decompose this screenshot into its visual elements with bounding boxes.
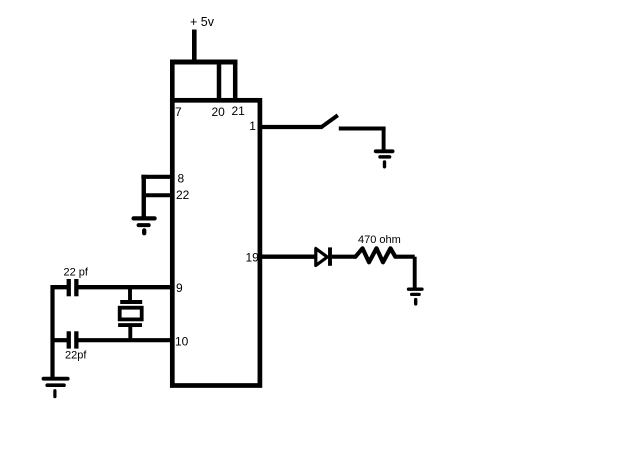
svg-text:8: 8 (178, 172, 185, 186)
ground G2 (134, 218, 155, 233)
capacitor C2 plates (69, 331, 77, 348)
svg-text:7: 7 (175, 105, 182, 119)
wire pin 10 right segment (78, 338, 173, 342)
svg-text:1: 1 (249, 119, 256, 133)
wire pin 9 right segment (78, 285, 173, 289)
wire pin 22 (143, 193, 173, 197)
wire bus drop to pin 21 (233, 60, 238, 100)
wire pin 8 (141, 175, 173, 179)
wire bus drop to pin 7 (170, 60, 175, 100)
wire switch to corner (339, 127, 386, 131)
svg-text:22pf: 22pf (65, 349, 87, 361)
svg-text:19: 19 (246, 251, 260, 265)
wire +5v vertical (192, 30, 197, 64)
IC U1 body (172, 100, 260, 385)
svg-text:20: 20 (212, 105, 226, 119)
wire corner down to ground G1 (382, 129, 386, 152)
resistor R1 zigzag (356, 248, 396, 262)
svg-text:9: 9 (176, 281, 183, 295)
wire pin 1 to switch (260, 125, 323, 129)
ground G3 (409, 289, 423, 304)
ground G1 (376, 151, 393, 167)
crystal Y1 top plate (120, 300, 142, 304)
wire +5v bus horizontal (170, 60, 237, 65)
diode D1 cathode bar (328, 247, 332, 265)
wire pin8/22 vertical to ground G2 (142, 175, 146, 217)
switch S1 blade (321, 115, 338, 127)
wire bus drop to pin 20 (217, 60, 222, 100)
crystal Y1 body (120, 308, 142, 320)
svg-text:+ 5v: + 5v (190, 15, 215, 29)
svg-text:470 ohm: 470 ohm (358, 234, 401, 246)
ground G4 (44, 379, 68, 397)
wire pin 19 to diode (260, 255, 317, 259)
wire left vertical rail (50, 285, 54, 378)
diode D1 (316, 249, 328, 266)
capacitor C1 plates (69, 279, 77, 296)
svg-text:22: 22 (176, 188, 190, 202)
crystal Y1 bottom plate (118, 323, 142, 327)
svg-text:10: 10 (175, 335, 189, 349)
svg-text:22 pf: 22 pf (64, 266, 89, 278)
wire resistor to corner (395, 255, 415, 259)
wire diode to resistor (332, 255, 357, 259)
svg-text:21: 21 (232, 104, 246, 118)
wire crystal top stub (128, 287, 132, 301)
wire corner down to ground G3 (413, 257, 417, 289)
wire crystal bottom stub (128, 325, 132, 342)
wire pin 10 left segment (53, 338, 68, 342)
wire pin 9 left segment (51, 285, 68, 289)
